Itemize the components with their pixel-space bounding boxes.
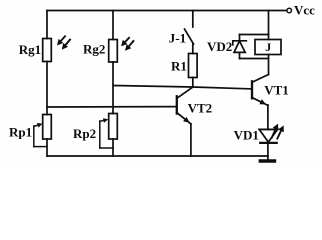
relay contact J-1 lower stub <box>192 44 194 54</box>
wire column 1 bottom <box>46 139 48 156</box>
svg-text:VT2: VT2 <box>188 101 213 116</box>
svg-text:Rp2: Rp2 <box>73 126 96 141</box>
wire LED cathode to ground <box>267 143 269 160</box>
svg-text:Rg1: Rg1 <box>19 42 41 57</box>
svg-text:VD1: VD1 <box>234 128 259 143</box>
potentiometer Rp1 <box>43 115 52 140</box>
svg-text:VT1: VT1 <box>264 83 289 98</box>
potentiometer Rp2 <box>109 114 118 140</box>
zener diode VD2 <box>233 35 247 59</box>
wire column 1 middle <box>46 62 48 115</box>
wire node A from Rg2/Rp2 junction to VT1 base <box>113 86 252 89</box>
relay contact J-1 blade <box>185 29 194 44</box>
wire top rail Vcc <box>47 10 287 12</box>
resistor Rg1 <box>43 39 52 62</box>
svg-text:J-1: J-1 <box>169 30 186 45</box>
wire column 4 from rail to clamp network <box>268 11 270 35</box>
wire column 2 top <box>112 11 114 40</box>
wire R1 bottom lead <box>192 78 194 88</box>
relay coil J box <box>255 35 281 59</box>
light arrows of Rg2 <box>121 38 133 51</box>
transistor VT1 <box>252 75 269 106</box>
ground <box>260 159 274 162</box>
wire bottom rail <box>47 155 268 157</box>
svg-text:Vcc: Vcc <box>294 3 315 18</box>
wiper arrow of Rp1 <box>34 123 47 147</box>
resistor R1 <box>189 54 198 78</box>
svg-text:VD2: VD2 <box>207 39 232 54</box>
wire column 1 top <box>46 11 48 39</box>
light arrows of VD1 <box>272 124 284 139</box>
light arrows of Rg1 <box>57 36 70 49</box>
wire VT2 emitter to bottom rail <box>190 124 192 156</box>
wire column 2 middle <box>112 62 114 114</box>
wire clamp network bottom bar <box>240 58 269 60</box>
LED VD1 <box>259 129 277 143</box>
resistor Rg2 <box>109 40 118 63</box>
wire clamp network top bar <box>240 34 269 36</box>
transistor VT2 <box>177 87 193 124</box>
svg-text:Rg2: Rg2 <box>83 42 105 57</box>
wiper arrow of Rp2 <box>100 118 113 148</box>
svg-text:J: J <box>265 40 271 54</box>
wire column 2 bottom <box>112 139 114 156</box>
wire VT1 emitter to LED <box>267 105 269 129</box>
wire to VT1 collector <box>268 59 270 75</box>
wire node B from Rg1/Rp1 junction to VT2 base <box>47 106 177 108</box>
relay contact J-1 upper stub <box>192 11 194 28</box>
svg-text:R1: R1 <box>171 59 187 74</box>
node Vcc terminal <box>287 8 292 13</box>
svg-text:Rp1: Rp1 <box>9 125 32 140</box>
